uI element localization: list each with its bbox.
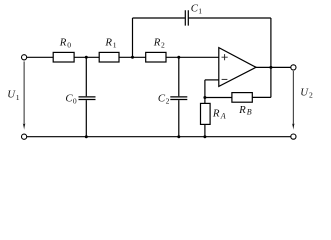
svg-text:1: 1 bbox=[198, 6, 202, 15]
svg-text:2: 2 bbox=[309, 90, 313, 99]
svg-text:2: 2 bbox=[166, 96, 170, 105]
svg-text:0: 0 bbox=[73, 96, 77, 105]
svg-text:2: 2 bbox=[161, 40, 165, 49]
svg-text:R: R bbox=[59, 37, 67, 49]
svg-text:R: R bbox=[104, 37, 112, 49]
svg-text:1: 1 bbox=[16, 93, 20, 102]
svg-text:R: R bbox=[153, 37, 161, 49]
svg-text:B: B bbox=[247, 108, 252, 117]
svg-text:R: R bbox=[212, 107, 220, 119]
svg-text:R: R bbox=[238, 104, 246, 116]
svg-text:A: A bbox=[220, 112, 226, 121]
svg-text:U: U bbox=[300, 86, 309, 98]
svg-text:0: 0 bbox=[67, 40, 71, 49]
svg-text:1: 1 bbox=[113, 40, 117, 49]
